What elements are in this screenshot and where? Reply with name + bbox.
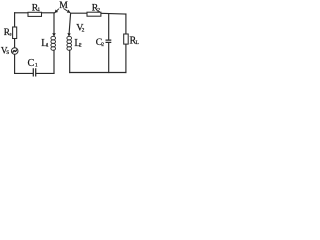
svg-text:2: 2: [79, 43, 82, 49]
capacitor C2: [106, 40, 112, 42]
svg-text:1: 1: [35, 62, 38, 68]
M arrow left: [55, 9, 59, 13]
wire C1 to L1 bottom corner: [36, 72, 54, 74]
wire node B down to L2 with arrow (V2): [69, 13, 71, 36]
svg-text:2: 2: [97, 7, 100, 13]
resistor RL (load): [124, 34, 129, 44]
wire L2 bottom vertical: [69, 50, 71, 72]
svg-text:M: M: [59, 0, 68, 11]
capacitor C1: [33, 68, 35, 76]
svg-text:C: C: [28, 58, 35, 69]
wire top-left rail: [15, 12, 28, 14]
wire Vs to bottom-left corner: [14, 54, 16, 73]
wire R1 to node A: [42, 12, 55, 14]
svg-text:2: 2: [101, 42, 104, 48]
source Vs: [11, 48, 18, 55]
resistor R2: [87, 12, 101, 16]
svg-text:1: 1: [46, 43, 49, 49]
wire RL bottom to rail: [125, 44, 127, 72]
wire left branch vertical top: [14, 13, 16, 27]
resistor Rs (source resistance): [13, 27, 17, 39]
svg-text:L: L: [136, 40, 140, 46]
inductor L1: [51, 36, 56, 50]
svg-text:2: 2: [82, 28, 85, 34]
wire top-right corner down to RL: [125, 14, 127, 34]
svg-text:S: S: [6, 50, 9, 56]
wire L1 bottom vertical: [53, 50, 55, 73]
wire node B to R2: [71, 12, 87, 14]
svg-text:s: s: [10, 32, 12, 37]
wire Rs to Vs: [14, 39, 16, 48]
wire C2 branch lower: [108, 43, 110, 73]
wire bottom-right rail: [70, 72, 126, 74]
inductor L2: [67, 36, 72, 50]
resistor R1: [28, 12, 42, 16]
wire C2 branch upper: [108, 14, 110, 40]
wire node A down to L1 with arrow: [53, 13, 55, 37]
wire R2 to top-right corner: [101, 12, 126, 15]
M arrow right: [64, 9, 71, 13]
wire bottom-left rail to C1: [15, 72, 33, 74]
svg-text:1: 1: [37, 7, 40, 13]
